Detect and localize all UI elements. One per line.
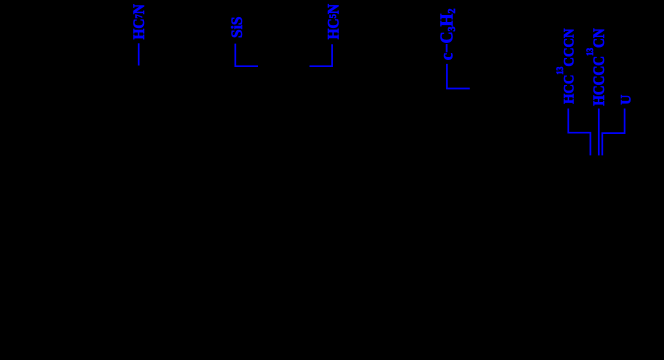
svg-text:U: U — [618, 95, 634, 105]
svg-text:c−C3H2: c−C3H2 — [437, 9, 458, 61]
svg-text:HC5N: HC5N — [325, 4, 342, 39]
svg-text:HC7N: HC7N — [131, 4, 148, 39]
svg-text:SiS: SiS — [229, 16, 246, 38]
